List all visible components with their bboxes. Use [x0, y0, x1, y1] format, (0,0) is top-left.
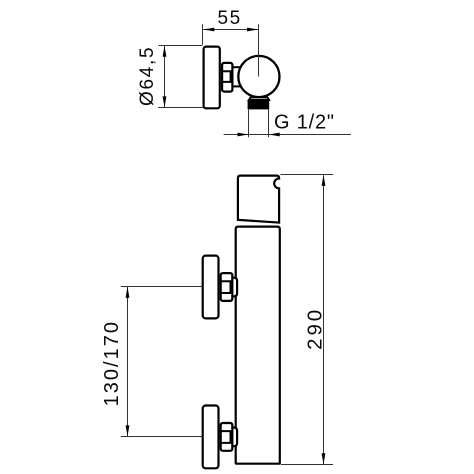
dim Ø64,5 bottom extension line — [158, 107, 204, 109]
dim G1/2 left extension line — [248, 110, 250, 138]
bottom bracket nut bulge — [232, 428, 237, 447]
thread block (solid) — [248, 100, 270, 110]
top bracket wall flange — [203, 256, 219, 319]
dim 290 arrow up — [322, 175, 326, 186]
svg-text:130/170: 130/170 — [101, 320, 123, 406]
dim 130/170 dimension line — [127, 287, 129, 436]
bottom bracket wall flange — [203, 406, 219, 469]
bottom bracket nut — [221, 423, 233, 451]
dim 130/170 arrow down — [126, 425, 130, 436]
dim 290 dimension line — [323, 175, 325, 464]
top bracket nut step notch — [221, 281, 231, 293]
wall flange disc (side view) — [204, 47, 220, 109]
dim 130/170 top extension line — [121, 286, 202, 288]
svg-text:290: 290 — [304, 307, 327, 350]
dim G1/2 right arrow — [269, 133, 280, 137]
dim G1/2 right extension line — [268, 110, 270, 138]
holder stem step notch — [222, 71, 231, 82]
collar below ball — [249, 97, 269, 100]
dim G1/2 left arrow — [238, 133, 249, 137]
dim 55 dimension line — [203, 29, 258, 31]
dim 290 arrow down — [322, 453, 326, 464]
svg-text:G 1/2": G 1/2" — [274, 112, 335, 134]
svg-text:55: 55 — [218, 8, 242, 29]
dim 130/170 bottom extension line — [121, 436, 203, 438]
bottom bracket nut step notch — [221, 431, 231, 443]
dim 55 left extension line — [202, 24, 204, 45]
ball joint — [238, 56, 279, 97]
dim 130/170 arrow up — [126, 287, 130, 298]
column top connector piece — [238, 176, 279, 223]
dim 55 right arrow — [247, 28, 258, 32]
connector ring top line — [234, 66, 241, 68]
dim G1/2 dimension line — [224, 134, 351, 136]
top bracket nut — [221, 273, 233, 301]
dim 290 top extension line — [281, 174, 334, 176]
dim Ø64,5 dimension line — [164, 46, 166, 107]
dim 55 right extension line through ball center — [258, 24, 260, 76]
holder stem — [222, 63, 232, 92]
column main body — [236, 227, 280, 464]
svg-text:Ø64,5: Ø64,5 — [137, 46, 158, 106]
connector ring bottom line — [234, 85, 241, 87]
dim 290 bottom extension line — [281, 464, 333, 466]
dim Ø64,5 top extension line — [159, 45, 203, 47]
dim Ø64,5 arrow down — [163, 96, 167, 107]
top bracket nut bulge — [232, 278, 237, 297]
dim Ø64,5 arrow up — [163, 46, 167, 57]
dim 55 left arrow — [203, 28, 214, 32]
